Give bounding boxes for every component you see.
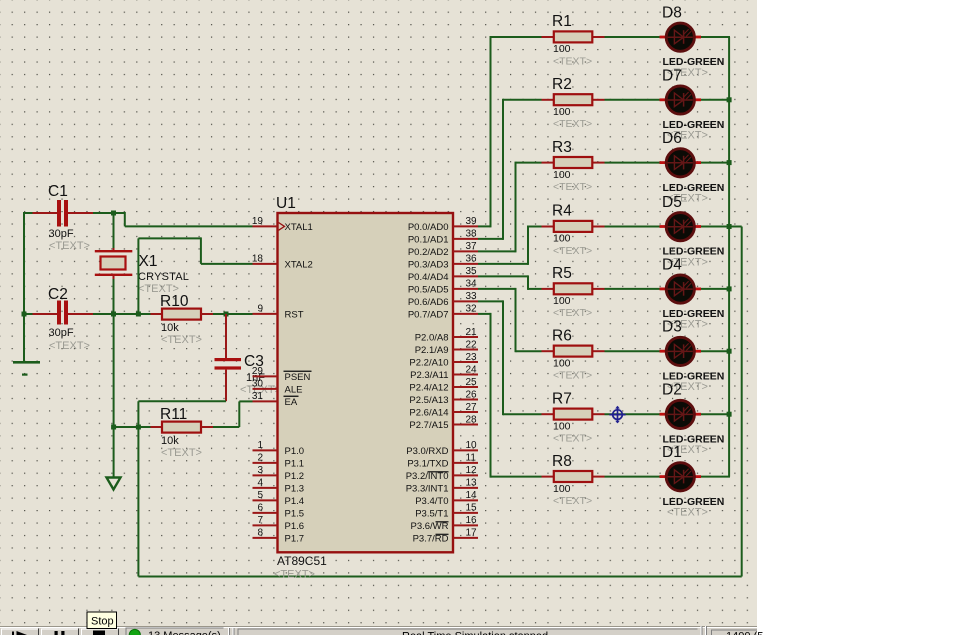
pin 15 P3.5/T1 (right) <box>415 503 478 520</box>
resistor R4 <box>554 221 593 232</box>
wire D2 cathode to bus <box>701 413 730 415</box>
pin 12 P3.2/INT0 (right) <box>406 465 478 482</box>
svg-text:R1: R1 <box>552 13 572 30</box>
resistor R5 leads <box>542 288 605 290</box>
crystal bottom pin stub <box>113 276 115 279</box>
svg-text:RST: RST <box>285 309 304 320</box>
pin 4 P1.3 (left) <box>253 478 305 495</box>
LED D1 <box>660 463 702 491</box>
svg-text:P2.7/A15: P2.7/A15 <box>409 420 448 431</box>
pin 24 P2.3/A11 (right) <box>410 364 478 381</box>
wire to XTAL1 pin <box>125 225 253 227</box>
pin 39 P0.0/AD0 (right) <box>408 216 478 233</box>
node cathode bus row 7 <box>727 412 732 417</box>
pin 2 P1.1 (left) <box>253 453 305 470</box>
wire C2 to R10 <box>93 313 151 315</box>
pin 31 EA (left) <box>252 391 298 408</box>
pin 13 P3.3/INT1 (right) <box>406 478 478 495</box>
svg-text:R8: R8 <box>552 453 572 470</box>
node crystal bottom junction <box>111 312 116 317</box>
wire R3 to D6 <box>605 162 660 164</box>
svg-text:100: 100 <box>553 420 571 432</box>
wire crystal net down to arrow <box>113 314 115 477</box>
svg-text:AT89C51: AT89C51 <box>277 554 327 568</box>
C2 left pin <box>33 313 58 315</box>
svg-text:D3: D3 <box>662 319 682 336</box>
svg-text:XTAL2: XTAL2 <box>285 259 313 270</box>
wire D6 cathode to bus <box>701 162 730 164</box>
wire corner down to XTAL1 level <box>124 212 126 226</box>
svg-text:D7: D7 <box>662 67 682 84</box>
resistor R2 <box>554 94 593 105</box>
svg-text:100: 100 <box>553 43 571 55</box>
pin 18 XTAL2 (left) <box>252 254 313 271</box>
pin 11 P3.1/TXD (right) <box>407 453 478 470</box>
svg-text:11: 11 <box>466 453 477 464</box>
svg-text:<TEXT>: <TEXT> <box>667 506 708 518</box>
svg-text:D6: D6 <box>662 130 682 147</box>
node XTAL1 junction at C1/crystal <box>111 211 116 216</box>
wire crystal bottom to RST net <box>113 279 115 314</box>
overline WR <box>436 521 449 522</box>
C2 right pin <box>68 313 93 315</box>
svg-text:<TEXT>: <TEXT> <box>553 495 592 507</box>
svg-text:P0.2/AD2: P0.2/AD2 <box>408 247 449 258</box>
svg-text:8: 8 <box>257 528 263 539</box>
svg-text:D5: D5 <box>662 194 682 211</box>
svg-text:10k: 10k <box>161 322 179 334</box>
LED D5 <box>660 213 702 241</box>
pin 19 XTAL1 (left) <box>252 216 313 233</box>
pin 25 P2.4/A12 (right) <box>409 377 478 394</box>
resistor R8 <box>554 471 593 482</box>
svg-text:<TEXT>: <TEXT> <box>553 370 592 382</box>
wire left vertical C1/C2 to ground <box>23 212 25 361</box>
svg-text:30: 30 <box>252 379 264 390</box>
svg-text:18: 18 <box>252 254 264 265</box>
status bar background <box>0 626 757 635</box>
wire D8 cathode to bus <box>701 36 730 38</box>
pin 27 P2.6/A14 (right) <box>409 402 478 419</box>
pin 21 P2.0/A8 (right) <box>415 327 478 344</box>
svg-text:C2: C2 <box>48 286 68 303</box>
overline INT0 <box>428 471 449 472</box>
svg-text:CRYSTAL: CRYSTAL <box>138 271 189 283</box>
node arrow junction <box>111 425 116 430</box>
svg-text:<TEXT>: <TEXT> <box>49 240 90 252</box>
svg-text:PSEN: PSEN <box>285 372 311 383</box>
svg-text:D2: D2 <box>662 382 682 399</box>
wire to C2 left lead <box>24 313 33 315</box>
svg-text:P0.0/AD0: P0.0/AD0 <box>408 222 449 233</box>
resistor R5 <box>554 283 593 294</box>
svg-text:R4: R4 <box>552 203 572 220</box>
wire D4 cathode to bus <box>701 288 730 290</box>
wire net P0.0 to R1 <box>478 36 542 227</box>
capacitor C1 <box>57 200 68 227</box>
wire net P0.5 to R6 <box>478 288 542 352</box>
resistor R6 leads <box>542 350 605 352</box>
svg-text:15: 15 <box>466 503 478 514</box>
svg-text:D1: D1 <box>662 444 682 461</box>
wire corner to C1 left lead <box>24 212 33 214</box>
svg-text:23: 23 <box>466 352 478 363</box>
node cathode bus row 3 <box>727 160 732 165</box>
wire R4 to D5 <box>605 226 660 228</box>
svg-text:P1.0: P1.0 <box>285 446 305 457</box>
svg-text:3: 3 <box>257 465 263 476</box>
svg-text:<TEXT>: <TEXT> <box>553 245 592 257</box>
svg-text:P2.1/A9: P2.1/A9 <box>415 345 449 356</box>
svg-text:17: 17 <box>466 528 478 539</box>
toolbar button stop <box>81 629 119 635</box>
node XTAL2 branch junction <box>136 312 141 317</box>
svg-text:P1.3: P1.3 <box>285 483 305 494</box>
svg-text:P3.5/T1: P3.5/T1 <box>415 508 448 519</box>
wire net P0.7 to R8 <box>478 313 542 478</box>
wire cathode bus vertical <box>728 37 730 477</box>
svg-text:22: 22 <box>466 339 478 350</box>
svg-text:<TEXT>: <TEXT> <box>553 181 592 193</box>
svg-text:4: 4 <box>257 478 263 489</box>
svg-text:10k: 10k <box>161 435 179 447</box>
LED D6 <box>660 149 702 177</box>
svg-text:28: 28 <box>466 414 478 425</box>
svg-text:U1: U1 <box>276 195 296 212</box>
pin 28 P2.7/A15 (right) <box>409 414 478 431</box>
time panel <box>711 630 757 635</box>
pin 30 ALE (left) <box>252 379 303 396</box>
svg-text:P3.0/RXD: P3.0/RXD <box>406 446 448 457</box>
svg-text:EA: EA <box>285 397 298 408</box>
svg-text:34: 34 <box>466 279 478 290</box>
svg-text:P3.3/INT1: P3.3/INT1 <box>406 483 449 494</box>
svg-text:26: 26 <box>466 389 478 400</box>
resistor R7 leads <box>542 413 605 415</box>
svg-text:<TEXT>: <TEXT> <box>161 334 202 346</box>
svg-text:38: 38 <box>466 229 478 240</box>
LED D3 <box>660 337 702 365</box>
pin 8 P1.7 (left) <box>253 528 305 545</box>
svg-text:P3.1/TXD: P3.1/TXD <box>407 458 448 469</box>
LED D8 <box>660 23 702 51</box>
svg-text:XTAL1: XTAL1 <box>285 222 313 233</box>
overline EA <box>284 396 299 397</box>
wire XTAL2 vertical <box>137 238 139 314</box>
pin 26 P2.5/A13 (right) <box>409 389 478 406</box>
svg-text:<TEXT>: <TEXT> <box>49 340 90 352</box>
svg-text:35: 35 <box>466 266 478 277</box>
wire EA vertical <box>238 401 240 427</box>
wire to XTAL2 pin <box>201 263 253 265</box>
svg-text:P0.7/AD7: P0.7/AD7 <box>408 309 449 320</box>
svg-text:P0.1/AD1: P0.1/AD1 <box>408 234 449 245</box>
svg-text:27: 27 <box>466 402 478 413</box>
C1 left pin <box>33 212 58 214</box>
separator grips <box>228 628 235 635</box>
cursor crosshair <box>609 406 625 424</box>
pin 22 P2.1/A9 (right) <box>415 339 478 356</box>
svg-text:1400 (5: 1400 (5 <box>726 631 763 635</box>
pin 3 P1.2 (left) <box>253 465 305 482</box>
C3 bottom lead <box>225 370 227 402</box>
svg-text:1: 1 <box>257 440 263 451</box>
wire left long vertical to bottom bus <box>137 401 139 576</box>
wire R10 to RST pin <box>213 313 253 315</box>
status panel <box>238 629 698 635</box>
wire R1 to D8 <box>605 36 660 38</box>
pin 29 PSEN (left) <box>252 366 311 383</box>
wire R8 to D1 <box>605 476 660 478</box>
node C2 left junction <box>22 312 27 317</box>
node cathode bus row 4 <box>727 224 732 229</box>
wire D1 cathode to bus <box>701 476 730 478</box>
pin 38 P0.1/AD1 (right) <box>408 229 478 246</box>
svg-text:R10: R10 <box>160 293 189 310</box>
stop icon <box>93 631 105 635</box>
svg-text:24: 24 <box>466 364 478 375</box>
svg-text:R2: R2 <box>552 76 572 93</box>
svg-text:D8: D8 <box>662 5 682 22</box>
svg-text:R11: R11 <box>160 406 187 423</box>
svg-text:P0.5/AD5: P0.5/AD5 <box>408 284 449 295</box>
svg-text:30pF: 30pF <box>49 327 74 339</box>
svg-text:6: 6 <box>257 503 263 514</box>
wire net P0.6 to R7 <box>478 300 542 415</box>
wire net P0.3 to R4 <box>478 226 542 265</box>
resistor R2 leads <box>542 99 605 101</box>
svg-text:P2.6/A14: P2.6/A14 <box>409 407 448 418</box>
right separator grips <box>701 626 708 635</box>
wire D5 cathode to bus <box>701 226 730 228</box>
svg-text:C1: C1 <box>48 183 68 200</box>
svg-text:R3: R3 <box>552 139 572 156</box>
svg-text:P1.2: P1.2 <box>285 471 305 482</box>
ground symbol (left) <box>13 361 40 376</box>
pin 9 RST (left) <box>253 304 304 321</box>
node C3 top junction <box>224 312 229 317</box>
pin 36 P0.3/AD3 (right) <box>408 254 478 271</box>
svg-text:30pF: 30pF <box>49 228 74 240</box>
wire XTAL2 horizontal upper <box>138 237 201 239</box>
svg-text:R5: R5 <box>552 265 572 282</box>
pin 7 P1.6 (left) <box>253 515 305 532</box>
wire bottom horizontal bus <box>138 576 741 578</box>
pin 23 P2.2/A10 (right) <box>409 352 478 369</box>
LED D2 <box>660 400 702 428</box>
ground arrow symbol <box>107 478 121 490</box>
resistor R3 <box>554 157 593 168</box>
node cathode bus row 6 <box>727 349 732 354</box>
wire bus to bus2 at row 4 <box>729 226 742 228</box>
svg-text:<TEXT>: <TEXT> <box>161 447 202 459</box>
svg-text:R7: R7 <box>552 390 572 407</box>
svg-text:<TEXT>: <TEXT> <box>553 118 592 130</box>
svg-text:P3.4/T0: P3.4/T0 <box>415 496 448 507</box>
wire right vertical bus2 <box>741 227 743 577</box>
toolbar button pause <box>41 629 79 635</box>
pin 10 P3.0/RXD (right) <box>406 440 478 457</box>
svg-text:P2.4/A12: P2.4/A12 <box>409 382 448 393</box>
svg-text:ALE: ALE <box>285 384 303 395</box>
svg-text:P0.3/AD3: P0.3/AD3 <box>408 259 449 270</box>
svg-text:12: 12 <box>466 465 478 476</box>
C3 top lead <box>225 314 227 358</box>
svg-text:100: 100 <box>553 295 571 307</box>
svg-text:10: 10 <box>466 440 478 451</box>
svg-text:32: 32 <box>466 304 478 315</box>
svg-text:R6: R6 <box>552 327 572 344</box>
pin 16 P3.6/WR (right) <box>410 515 478 532</box>
resistor R6 <box>554 346 593 357</box>
svg-text:X1: X1 <box>139 253 158 270</box>
svg-text:P0.6/AD6: P0.6/AD6 <box>408 297 449 308</box>
svg-text:P1.4: P1.4 <box>285 496 305 507</box>
wire C1 to corner <box>93 212 125 214</box>
wire R2 to D7 <box>605 99 660 101</box>
svg-text:P3.2/INT0: P3.2/INT0 <box>406 471 449 482</box>
wire R6 to D3 <box>605 350 660 352</box>
R11 right lead <box>201 426 213 428</box>
svg-text:29: 29 <box>252 366 264 377</box>
pin 6 P1.5 (left) <box>253 503 305 520</box>
svg-text:P1.6: P1.6 <box>285 521 305 532</box>
overline PSEN <box>284 371 312 372</box>
svg-text:19: 19 <box>252 216 264 227</box>
svg-text:P2.3/A11: P2.3/A11 <box>410 370 448 381</box>
svg-text:5: 5 <box>257 490 263 501</box>
svg-text:100: 100 <box>553 357 571 369</box>
pin 33 P0.6/AD6 (right) <box>408 291 478 308</box>
svg-text:P3.6/WR: P3.6/WR <box>410 521 448 532</box>
svg-text:31: 31 <box>252 391 264 402</box>
svg-text:36: 36 <box>466 254 478 265</box>
wire net P0.4 to R5 <box>478 275 542 290</box>
pin 17 P3.7/RD (right) <box>413 528 478 545</box>
svg-text:100: 100 <box>553 483 571 495</box>
node R11 left junction <box>136 425 141 430</box>
svg-text:33: 33 <box>466 291 478 302</box>
resistor R10 <box>162 309 201 320</box>
svg-text:16: 16 <box>466 515 478 526</box>
wire net P0.2 to R3 <box>478 162 542 253</box>
svg-text:Stop: Stop <box>91 616 114 628</box>
wire net P0.1 to R2 <box>478 99 542 240</box>
wire XTAL2 vertical right <box>200 237 202 264</box>
svg-text:P2.5/A13: P2.5/A13 <box>409 395 448 406</box>
pause icon <box>55 631 58 635</box>
pin 1 P1.0 (left) <box>253 440 305 457</box>
R11 left lead <box>151 426 163 428</box>
wire to EA pin <box>239 400 252 402</box>
svg-text:25: 25 <box>466 377 478 388</box>
svg-text:D4: D4 <box>662 256 682 273</box>
wire R5 to D4 <box>605 288 660 290</box>
svg-text:21: 21 <box>466 327 478 338</box>
tooltip Stop <box>87 612 117 629</box>
toolbar button play <box>1 629 39 635</box>
resistor R11 <box>162 422 201 433</box>
svg-text:100: 100 <box>553 233 571 245</box>
svg-text:2: 2 <box>257 453 263 464</box>
wire C3 bottom horizontal <box>138 400 226 402</box>
play icon <box>12 631 27 635</box>
wire junction to junction <box>114 426 139 428</box>
svg-text:13: 13 <box>466 478 478 489</box>
wire junction down to crystal top <box>113 213 115 248</box>
pin 34 P0.5/AD5 (right) <box>408 279 478 296</box>
resistor R1 <box>554 31 593 42</box>
svg-text:100: 100 <box>553 169 571 181</box>
svg-text:100: 100 <box>553 106 571 118</box>
wire R7 to D2 <box>605 413 660 415</box>
pin 32 P0.7/AD7 (right) <box>408 304 478 321</box>
svg-text:P2.0/A8: P2.0/A8 <box>415 332 449 343</box>
svg-text:P1.7: P1.7 <box>285 533 305 544</box>
svg-text:P2.2/A10: P2.2/A10 <box>409 357 448 368</box>
overline RD <box>436 534 449 535</box>
IC U1 AT89C51 body <box>278 213 454 552</box>
resistor R8 leads <box>542 476 605 478</box>
wire R11 to EA vertical <box>213 426 239 428</box>
LED D4 <box>660 275 702 303</box>
svg-text:14: 14 <box>466 490 478 501</box>
resistor R4 leads <box>542 226 605 228</box>
svg-text:39: 39 <box>466 216 478 227</box>
R10 right lead <box>201 313 213 315</box>
crystal top pin stub <box>113 248 115 251</box>
capacitor C2 <box>57 301 68 325</box>
wire D3 cathode to bus <box>701 350 730 352</box>
svg-text:P0.4/AD4: P0.4/AD4 <box>408 272 449 283</box>
svg-text:<TEXT>: <TEXT> <box>274 569 315 581</box>
wire D7 cathode to bus <box>701 99 730 101</box>
pin 35 P0.4/AD4 (right) <box>408 266 478 283</box>
svg-text:P1.1: P1.1 <box>285 458 305 469</box>
resistor R3 leads <box>542 162 605 164</box>
svg-text:9: 9 <box>257 304 263 315</box>
svg-text:<TEXT>: <TEXT> <box>553 433 592 445</box>
XTAL1 pin clock marker <box>279 223 285 231</box>
pin 5 P1.4 (left) <box>253 490 305 507</box>
node cathode bus row 2 <box>727 97 732 102</box>
svg-text:37: 37 <box>466 241 478 252</box>
resistor R7 <box>554 409 593 420</box>
svg-text:13 Message(s): 13 Message(s) <box>148 630 221 635</box>
message panel <box>126 628 224 635</box>
wire C1 right lead net to node <box>68 212 93 214</box>
svg-text:<TEXT>: <TEXT> <box>553 55 592 67</box>
R10 left lead <box>151 313 163 315</box>
LED D7 <box>660 86 702 114</box>
resistor R1 leads <box>542 36 605 38</box>
svg-text:7: 7 <box>257 515 263 526</box>
crystal X1 <box>95 250 133 276</box>
message info icon <box>129 629 140 635</box>
svg-text:P3.7/RD: P3.7/RD <box>413 533 449 544</box>
pin 37 P0.2/AD2 (right) <box>408 241 478 258</box>
svg-text:<TEXT>: <TEXT> <box>553 307 592 319</box>
svg-text:P1.5: P1.5 <box>285 508 305 519</box>
svg-text:Real Time Simulation stopped: Real Time Simulation stopped <box>402 631 548 635</box>
node cathode bus row 5 <box>727 286 732 291</box>
wire to R11 left lead <box>138 426 150 428</box>
pin 14 P3.4/T0 (right) <box>415 490 478 507</box>
